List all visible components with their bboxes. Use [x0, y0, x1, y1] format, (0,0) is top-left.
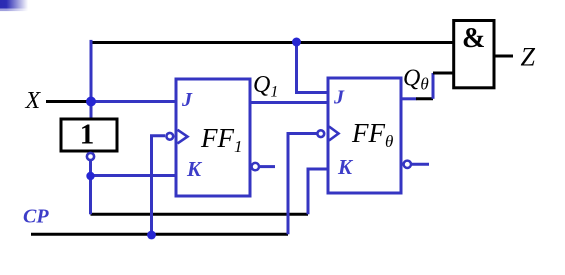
svg-text:&: & — [462, 23, 485, 54]
svg-text:Qθ: Qθ — [403, 66, 429, 94]
wire Q0 riser — [432, 73, 435, 99]
wire FF0 clock from CP rail — [288, 134, 317, 235]
svg-text:FF1: FF1 — [200, 123, 243, 156]
wire NOT output down to Xbar rail — [89, 161, 92, 214]
svg-text:J: J — [181, 89, 193, 111]
node top rail junction — [292, 38, 301, 47]
wire Q0 output stub — [401, 97, 417, 100]
FF0 output Qbar bubble — [404, 161, 411, 168]
wire top rail to FF0 J — [297, 42, 329, 93]
NOT gate U1 output bubble — [87, 153, 94, 160]
svg-text:K: K — [186, 157, 203, 181]
svg-text:K: K — [337, 155, 354, 179]
FF1 clock bubble — [166, 133, 173, 140]
AND gate U2 box — [454, 21, 494, 88]
flip-flop FF1 box — [176, 79, 250, 196]
svg-text:X: X — [25, 88, 42, 114]
node CP junction — [147, 231, 156, 240]
wire Z output — [494, 55, 513, 58]
svg-text:FFθ: FFθ — [351, 118, 393, 151]
wire FF1 clock from CP rail — [152, 136, 166, 235]
node NOT output junction — [86, 172, 94, 180]
wire top rail (X node to AND gate input A) — [91, 41, 454, 44]
wire FF1 Qbar stub — [260, 165, 275, 168]
svg-text:CP: CP — [23, 206, 49, 228]
FF1 clock chevron — [178, 130, 188, 144]
wire X input — [46, 100, 91, 103]
FF0 clock bubble — [317, 130, 324, 137]
svg-text:J: J — [333, 87, 345, 109]
flip-flop FF0 box — [328, 78, 401, 193]
wire FF0 Qbar stub — [412, 163, 429, 166]
wire X node to NOT gate input — [90, 102, 93, 120]
svg-text:Z: Z — [521, 43, 536, 72]
svg-text:1: 1 — [80, 119, 95, 151]
svg-text:Q1: Q1 — [253, 72, 278, 101]
wire Q1 (FF1 Q output to FF0) — [250, 101, 328, 104]
wire CP rail — [31, 233, 288, 236]
wire Q0 to AND gate input B — [433, 72, 454, 75]
FF1 output Qbar bubble — [252, 163, 259, 170]
wire X node rise to top rail — [90, 40, 93, 102]
NOT gate U1 box — [61, 119, 117, 151]
wire Xbar rail to FF0 K — [308, 169, 328, 214]
wire NOT output to FF1 K — [91, 174, 177, 177]
wire Q0 horizontal black — [416, 97, 433, 100]
node X junction — [86, 97, 96, 107]
FF0 clock chevron — [329, 127, 339, 141]
wire Xbar rail (NOT output to FF0 K riser) — [91, 213, 309, 216]
wire X node to FF1 J — [91, 100, 176, 103]
